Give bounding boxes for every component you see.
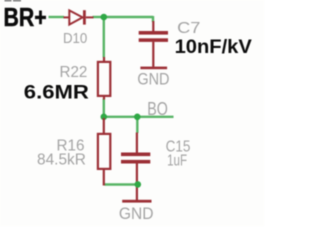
wire R16 bottom corner to junction D — [105, 183, 139, 185]
svg-text:BO: BO — [147, 99, 168, 119]
svg-text:GND: GND — [119, 204, 154, 223]
wire corner down to C7 pin — [152, 16, 154, 22]
svg-text:84.5kR: 84.5kR — [37, 152, 86, 169]
ground under C7 — [140, 67, 167, 70]
wire junction A to C7 corner — [104, 16, 153, 18]
wire junction A down to R22 — [103, 17, 105, 58]
diode D10 — [64, 10, 94, 24]
junction node C — [134, 114, 141, 121]
wire junction C down to C15 pin — [136, 117, 138, 133]
junction node D — [135, 181, 142, 188]
svg-text:BR+: BR+ — [4, 2, 47, 32]
svg-text:6.6MR: 6.6MR — [24, 81, 89, 103]
svg-text:GND: GND — [137, 70, 169, 89]
resistor R22 — [98, 57, 110, 100]
wire R22 bottom to junction B — [103, 99, 105, 118]
capacitor C15 — [121, 133, 150, 201]
ground under C15 — [122, 200, 151, 203]
cropped text remnant top edge — [5, 0, 12, 1]
svg-text:D10: D10 — [63, 30, 87, 47]
svg-text:10nF/kV: 10nF/kV — [175, 36, 252, 58]
junction node B — [101, 114, 108, 121]
wire BR+ to diode anode — [49, 16, 65, 18]
svg-text:1uF: 1uF — [167, 153, 187, 170]
svg-text:C7: C7 — [177, 20, 200, 37]
wire junction B to BO stub end — [104, 116, 174, 118]
capacitor C7 — [139, 21, 168, 67]
wire diode cathode to junction A — [93, 16, 105, 18]
svg-text:R22: R22 — [60, 64, 88, 81]
junction node A — [101, 14, 108, 21]
resistor R16 — [98, 118, 110, 186]
